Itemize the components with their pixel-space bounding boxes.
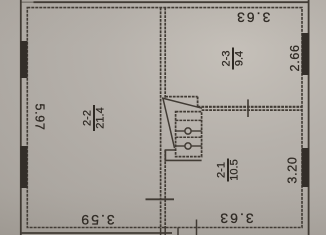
door leaf (shallow diagonal) xyxy=(162,98,202,108)
inner wall outline (dotted) xyxy=(27,8,302,228)
svg-text:2-1: 2-1 xyxy=(216,162,228,178)
window W2 left-bottom (filled) xyxy=(20,146,27,188)
svg-text:3.20: 3.20 xyxy=(286,156,300,183)
burner circle 2 xyxy=(185,143,191,149)
door threshold tick at bottom of interior wall xyxy=(146,198,175,200)
dimension text 5.97 (left wall) xyxy=(33,103,47,130)
svg-text:2.66: 2.66 xyxy=(288,44,302,71)
svg-text:5.97: 5.97 xyxy=(33,103,47,130)
outer wall: left line (full height) xyxy=(20,0,22,235)
dimension text 3.63 (bottom right) xyxy=(218,211,253,227)
room label 2-1 / 10.5 xyxy=(216,159,241,182)
divider wall 2-3/2-1: upper line xyxy=(198,106,302,108)
stove shelf line 1 xyxy=(176,119,202,121)
outer wall: right line (full height) xyxy=(308,0,310,235)
svg-text:10.5: 10.5 xyxy=(229,159,241,180)
dimension text 3.20 (right wall bottom) xyxy=(286,156,300,183)
tick on divider wall xyxy=(247,99,249,117)
window W1 left-top (filled) xyxy=(20,41,27,78)
stove body xyxy=(176,112,202,157)
partition above stove xyxy=(165,96,197,98)
room label 2-3 / 9.4 xyxy=(221,48,246,70)
partition step down xyxy=(197,97,199,107)
svg-text:9.4: 9.4 xyxy=(234,51,246,66)
svg-text:3.59: 3.59 xyxy=(79,212,114,228)
dimension tick below bottom wall 1 xyxy=(177,228,179,236)
svg-text:3.63: 3.63 xyxy=(218,211,253,227)
svg-text:3.63: 3.63 xyxy=(235,10,270,26)
svg-text:2-2: 2-2 xyxy=(82,110,94,126)
interior wall east line (gap for door y98-150) xyxy=(164,8,166,98)
divider wall 2-3/2-1: lower line xyxy=(202,109,302,111)
svg-text:21.4: 21.4 xyxy=(95,107,107,128)
dimension text 3.63 (top) xyxy=(235,10,270,26)
room label 2-2 / 21.4 xyxy=(82,105,107,131)
dimension tick below bottom wall 2 xyxy=(196,220,198,236)
dimension tick below wall (interior wall extension) xyxy=(164,228,166,235)
window W4 right-bottom (filled) xyxy=(302,148,309,187)
window W3 right-top (filled) xyxy=(302,33,309,75)
dimension text 3.59 (bottom left) xyxy=(79,212,114,228)
door leaf (steep diagonal) xyxy=(163,99,175,149)
stove platform ledge xyxy=(165,150,201,160)
svg-text:2-3: 2-3 xyxy=(221,51,233,67)
outer wall: bottom line (left part) xyxy=(21,232,172,234)
interior wall between room 2-2 and right rooms: west line xyxy=(160,8,162,228)
outer wall: top line xyxy=(34,1,309,3)
burner circle 1 xyxy=(185,128,191,134)
stove line through burner 2 xyxy=(176,145,185,147)
dimension text 2.66 (right wall top) xyxy=(288,44,302,71)
stove shelf line 2 xyxy=(176,136,202,138)
stove line through burner 1 xyxy=(176,130,185,132)
